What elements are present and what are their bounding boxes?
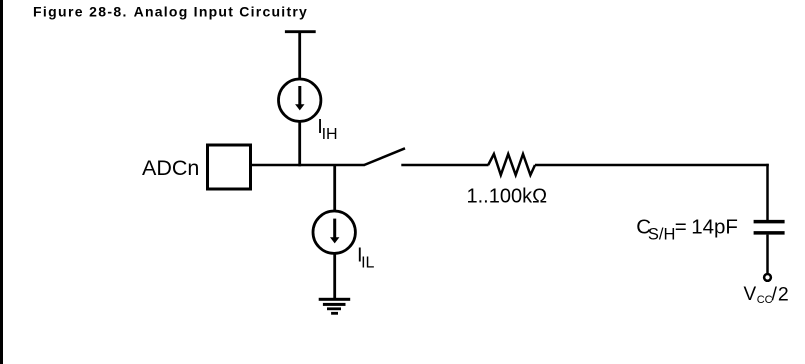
wire switch to resistor [401, 164, 488, 167]
wire resistor to capacitor [535, 164, 769, 220]
ADCn pad [208, 145, 251, 189]
wire capacitor to VCC/2 terminal [766, 235, 769, 273]
svg-text:Figure 28-8.: Figure 28-8. [33, 3, 128, 19]
switch (sample/hold) [364, 148, 405, 165]
wire node to IIL source [333, 165, 336, 211]
ground [319, 298, 351, 315]
svg-text:S/H: S/H [648, 226, 676, 244]
wire ADCn pad to switch [252, 164, 365, 167]
terminal VCC/2 [764, 274, 771, 281]
svg-text:=: = [675, 215, 687, 238]
svg-text:/2: /2 [772, 283, 790, 305]
svg-text:V: V [744, 284, 757, 305]
svg-text:IL: IL [361, 255, 374, 272]
label IIL [357, 244, 375, 271]
VCC terminal [285, 30, 316, 33]
current source IIL [313, 211, 355, 253]
svg-text:1..100kΩ: 1..100kΩ [467, 186, 548, 208]
capacitor CS/H [754, 222, 785, 233]
label IIH [317, 116, 337, 143]
svg-text:14pF: 14pF [691, 215, 738, 238]
label CS/H = 14pF [636, 215, 738, 243]
resistor 1..100k [488, 154, 535, 175]
label VCC/2 [744, 283, 790, 306]
wire IIH source to input node [298, 122, 301, 166]
svg-text:Analog Input Circuitry: Analog Input Circuitry [134, 3, 309, 19]
wire IIL source to ground [333, 254, 336, 298]
figure title [33, 3, 308, 19]
current source IIH [279, 79, 321, 121]
svg-text:IH: IH [322, 126, 338, 143]
svg-text:CC: CC [757, 294, 773, 306]
svg-text:ADCn: ADCn [142, 156, 199, 180]
wire terminal to IIH source [298, 32, 301, 79]
